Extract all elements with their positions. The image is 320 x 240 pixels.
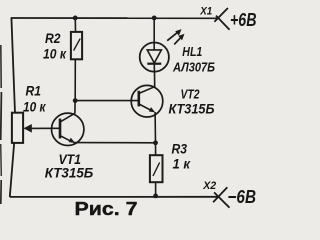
wire node B to R3 [155,143,157,156]
svg-text:R2: R2 [45,30,61,46]
label VT1 [59,152,82,167]
wire node A to VT2 base [75,100,139,102]
value label КТ315Б (VT2) [169,101,215,116]
junction dot HL1 top [152,16,157,21]
transistor VT1 [51,101,83,146]
svg-text:R3: R3 [172,141,188,156]
svg-text:10 к: 10 к [23,99,46,115]
svg-text:VT2: VT2 [181,87,200,101]
net label −6В [228,187,257,207]
wire HL1 to VT2 collector [154,72,156,88]
LED HL1 [140,29,185,72]
svg-text:АЛ307Б: АЛ307Б [172,60,215,75]
svg-text:X2: X2 [202,180,216,192]
svg-text:VT1: VT1 [59,152,82,167]
resistor R2 [71,32,82,59]
value label 10 к (R2) [43,45,67,61]
svg-text:КТ315Б: КТ315Б [45,166,94,181]
junction dot R2 top [73,16,78,21]
wire R3 to bottom rail [155,182,157,197]
label R2 [45,30,61,46]
svg-text:Рис. 7: Рис. 7 [75,199,138,219]
label X2 [202,180,216,192]
svg-text:HL1: HL1 [182,44,202,59]
wire HL1 cathode internal lead [153,64,155,72]
paper background [0,0,257,219]
terminal X2 [213,187,229,208]
label HL1 [182,44,202,59]
wire R2 bottom lead to node A [74,59,76,101]
label R1 [26,83,42,99]
wire HL1 top lead [153,18,155,50]
svg-text:+6В: +6В [230,10,257,30]
terminal X1 [214,8,229,30]
resistor R3 [150,155,163,182]
label R3 [172,141,188,156]
wire R1 wiper to VT1 base [25,127,61,129]
value label 1 к (R3) [173,156,192,171]
node B junction dot [153,140,158,145]
transistor VT2 [131,85,163,117]
svg-text:X1: X1 [199,6,212,18]
value label КТ315Б (VT1) [45,166,94,181]
caption Рис. 7 [75,199,138,219]
scan edge smudge left [0,45,2,204]
value label 10 к (R1) [23,99,46,115]
wire R2 top lead [74,18,76,33]
svg-text:10 к: 10 к [43,45,67,61]
value label АЛ307Б [172,60,215,75]
svg-text:КТ315Б: КТ315Б [169,101,215,116]
potentiometer R1 [12,113,32,143]
wire left rail lower [10,143,14,198]
wire bottom rail [10,196,217,198]
svg-text:−6В: −6В [228,187,257,207]
node A junction dot [73,98,78,103]
svg-text:1 к: 1 к [173,156,192,171]
wire top rail [11,17,219,19]
label VT2 [181,87,200,101]
label X1 [199,6,212,18]
wire VT2 emitter to node B [154,112,156,143]
wire left rail upper [11,17,15,113]
junction dot R3 bottom [153,194,158,199]
wire VT1 emitter to node B [73,142,155,144]
net label +6В [230,10,257,30]
svg-text:R1: R1 [26,83,42,99]
